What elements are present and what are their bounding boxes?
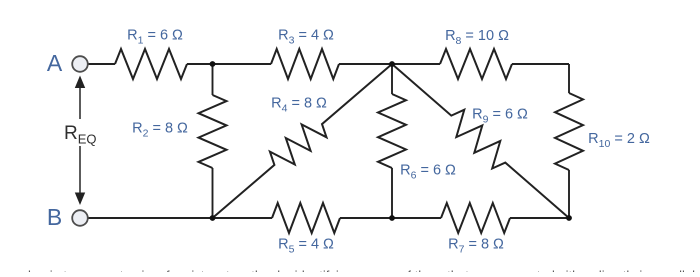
- resistor R3 = 4 ohm: [271, 49, 339, 79]
- resistor R5 = 4 ohm: [272, 203, 340, 233]
- wire: top rail R3 to node D: [339, 63, 440, 65]
- resistor R1 = 6 ohm: [115, 49, 187, 79]
- terminal B circle: [72, 210, 88, 226]
- resistor R6 = 6 ohm: [378, 94, 406, 168]
- wire: right rail R10 to node G: [568, 170, 570, 218]
- wire: R6 top lead: [391, 64, 393, 94]
- wire: R2 bottom lead: [212, 168, 214, 218]
- svg-text:R5 = 4 Ω: R5 = 4 Ω: [278, 237, 334, 256]
- resistor R9 = 6 ohm (diagonal): [392, 64, 569, 218]
- svg-text:R7 = 8 Ω: R7 = 8 Ω: [448, 237, 504, 256]
- wire: R2 top lead: [212, 64, 214, 95]
- REQ arrow shaft upper segment: [79, 86, 81, 119]
- resistor R2 = 8 ohm: [199, 95, 227, 168]
- REQ arrow shaft lower segment: [79, 146, 81, 194]
- wire: bottom rail B to R5: [88, 217, 272, 219]
- wire: right rail corner to R10: [568, 64, 570, 93]
- svg-text:B: B: [47, 204, 62, 230]
- node E (B rail / R2 / R4 / R5 junction): [210, 215, 216, 221]
- svg-text:begin to connect pairs of resi: begin to connect pairs of resistors toge…: [28, 268, 695, 272]
- node F (R5/R6/R7 junction): [389, 215, 395, 221]
- REQ arrowhead down: [75, 193, 85, 206]
- svg-text:A: A: [47, 50, 63, 76]
- svg-text:R8 = 10 Ω: R8 = 10 Ω: [445, 28, 509, 47]
- terminal A circle: [72, 56, 88, 72]
- svg-text:R3 = 4 Ω: R3 = 4 Ω: [278, 28, 334, 47]
- wire: bottom rail R5 to node F: [340, 217, 441, 219]
- svg-text:R10 = 2 Ω: R10 = 2 Ω: [588, 131, 650, 150]
- resistor R4 = 8 ohm (diagonal): [213, 64, 393, 218]
- svg-text:R9 = 6 Ω: R9 = 6 Ω: [472, 107, 528, 126]
- wire: top rail R1 to node C: [187, 63, 271, 65]
- svg-text:R2 = 8 Ω: R2 = 8 Ω: [132, 121, 188, 140]
- node D (R3/R4/R6/R8/R9 junction): [389, 61, 395, 67]
- resistor R10 = 2 ohm: [555, 93, 583, 170]
- wire: bottom rail R7 to node G: [510, 217, 569, 219]
- wire: R6 bottom lead: [391, 168, 393, 218]
- svg-text:R4 = 8 Ω: R4 = 8 Ω: [271, 96, 327, 115]
- svg-text:R6 = 6 Ω: R6 = 6 Ω: [400, 163, 456, 182]
- node C (R1/R2/R3 junction): [210, 61, 216, 67]
- node G (R7/R9/R10 junction): [566, 215, 572, 221]
- REQ arrowhead up: [75, 76, 85, 89]
- svg-text:R1 = 6 Ω: R1 = 6 Ω: [127, 28, 183, 47]
- resistor R8 = 10 ohm: [440, 49, 512, 79]
- wire: top rail R8 to top-right corner: [512, 63, 569, 65]
- svg-text:REQ: REQ: [64, 123, 97, 147]
- resistor R7 = 8 ohm: [441, 203, 510, 233]
- wire: top rail A to R1: [88, 63, 115, 65]
